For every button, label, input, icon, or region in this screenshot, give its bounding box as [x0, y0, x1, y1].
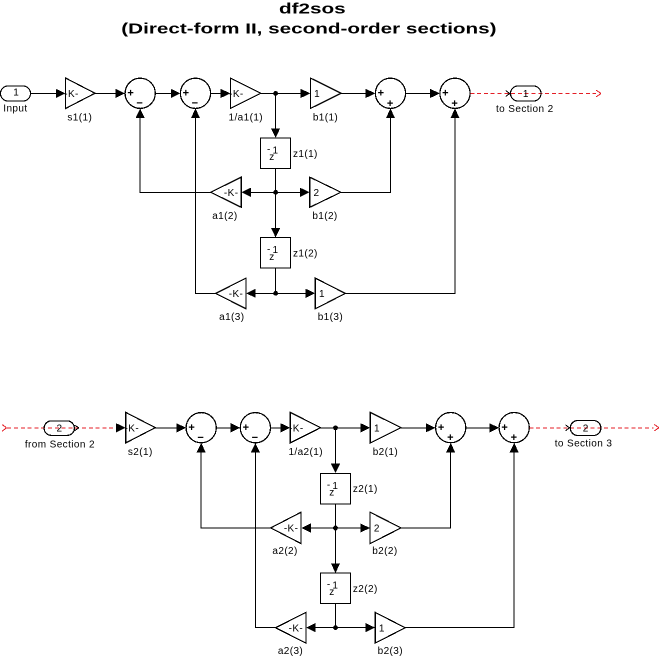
svg-text:+: +: [188, 422, 194, 434]
svg-text:z1(2): z1(2): [293, 249, 318, 260]
wire z2(1) to row2b junction: [335, 504, 337, 528]
sum Sum3b: [436, 413, 466, 445]
wire row2 junction to b1(2): [276, 188, 310, 197]
svg-text:+: +: [127, 88, 133, 100]
wire Sum1 to Sum2: [155, 89, 180, 98]
svg-text:1: 1: [374, 423, 380, 434]
output port to Section 3 (2): [555, 421, 613, 450]
wire Sum3 to Sum4: [406, 89, 440, 98]
sum Sum1: [125, 78, 155, 109]
svg-text:+: +: [442, 88, 448, 100]
svg-text:−: −: [136, 98, 142, 110]
wire Sum2b to 1/a2(1): [271, 423, 291, 432]
svg-text:Input: Input: [3, 104, 27, 115]
wire s1(1) to Sum1: [95, 89, 125, 98]
svg-text:+: +: [378, 88, 384, 100]
wire feedback a2(3) to Sum2b: [251, 443, 276, 628]
svg-text:+: +: [183, 88, 189, 100]
wire b2(1) to Sum3b: [401, 423, 435, 432]
svg-text:a2(3): a2(3): [278, 646, 303, 657]
svg-text:b1(3): b1(3): [318, 312, 343, 323]
wire feedforward b1(2) to Sum3: [341, 109, 395, 193]
svg-text:2: 2: [314, 188, 320, 199]
sum Sum2b: [240, 413, 270, 444]
wire row2b junction to a2(2): [301, 523, 335, 532]
delay z1(1): [261, 138, 318, 168]
delay z2(1): [320, 473, 377, 503]
wire dashed from left edge to s2(1): [7, 427, 116, 429]
svg-text:1/a1(1): 1/a1(1): [229, 112, 264, 123]
wire junction down to z2(1): [331, 428, 340, 473]
wire row3b junction to b2(3): [336, 623, 376, 632]
junction node on row1b: [333, 425, 338, 430]
svg-text:to Section 3: to Section 3: [555, 439, 613, 450]
wire row2 junction to a1(2): [241, 188, 275, 197]
wire feedback a2(2) to Sum1b: [197, 443, 271, 528]
svg-text:−: −: [197, 432, 203, 444]
svg-text:b2(1): b2(1): [373, 447, 398, 458]
input port from Section 2 (2): [25, 421, 95, 450]
svg-text:df2sos: df2sos: [279, 0, 346, 17]
output port to Section 2 (1): [496, 86, 554, 115]
svg-text:b2(2): b2(2): [372, 546, 397, 557]
svg-text:2: 2: [57, 423, 63, 434]
gain a1(3): [216, 278, 246, 323]
svg-text:+: +: [447, 432, 453, 444]
gain s2(1): [125, 412, 156, 457]
sum Sum3: [375, 78, 405, 110]
svg-text:1: 1: [273, 146, 279, 157]
wire row3 junction to b1(3): [276, 289, 316, 298]
svg-text:-K-: -K-: [229, 89, 244, 100]
wire row2b junction down to z2(2): [331, 528, 340, 573]
svg-text:1: 1: [13, 88, 19, 99]
svg-text:a1(2): a1(2): [212, 211, 237, 222]
wire feedback a1(3) to Sum2: [191, 109, 216, 294]
arrowhead into s2(1): [116, 423, 126, 432]
svg-text:-: -: [327, 480, 330, 491]
svg-text:b2(3): b2(3): [378, 646, 403, 657]
wire row2b junction to b2(2): [336, 523, 370, 532]
sum Sum1b: [186, 413, 216, 444]
wire feedback a1(2) to Sum1: [136, 109, 211, 193]
wire Input to s1(1): [31, 89, 66, 98]
gain b2(3): [375, 612, 405, 657]
sum Sum4b: [499, 413, 529, 445]
gain b1(3): [315, 278, 345, 323]
title line 2: [121, 20, 496, 37]
svg-text:a2(2): a2(2): [272, 546, 297, 557]
gain b2(2): [370, 512, 401, 557]
svg-text:b1(1): b1(1): [313, 112, 338, 123]
sum Sum4: [440, 78, 470, 110]
svg-text:-K-: -K-: [229, 289, 244, 300]
svg-text:-: -: [267, 145, 270, 156]
red open arrow end of top line: [596, 90, 601, 97]
wire dashed Sum4 to section boundary: [470, 92, 596, 94]
svg-text:+: +: [511, 432, 517, 444]
wire row3 junction to a1(3): [246, 289, 275, 298]
wire s2(1) to Sum1b: [155, 423, 186, 432]
wire row3b junction to a2(3): [306, 623, 335, 632]
wire Sum1b to Sum2b: [216, 423, 240, 432]
crossing mark before outport: [506, 91, 511, 97]
svg-text:s1(1): s1(1): [67, 112, 92, 123]
svg-text:−: −: [252, 432, 258, 444]
junction node on row1: [273, 91, 278, 96]
svg-text:from Section 2: from Section 2: [25, 439, 95, 450]
wire z2(2) to row3b junction: [335, 604, 337, 628]
gain s1(1): [64, 78, 95, 123]
svg-text:(Direct-form II, second-order: (Direct-form II, second-order sections): [121, 20, 496, 37]
junction node on row3b: [333, 625, 338, 630]
wire feedforward b2(2) to Sum3b: [401, 443, 455, 528]
red open arrow end of bottom line: [654, 424, 659, 431]
svg-text:+: +: [451, 98, 457, 110]
svg-text:-K-: -K-: [289, 423, 304, 434]
wire 1/a1(1) to b1(1): [261, 89, 311, 98]
gain 1/a2(1): [288, 412, 323, 457]
wire Sum2 to 1/a1(1): [211, 89, 231, 98]
svg-text:1: 1: [379, 623, 385, 634]
junction node on row3: [273, 291, 278, 296]
wire z1(1) to row2 junction: [275, 168, 277, 192]
svg-text:1: 1: [273, 245, 279, 256]
svg-text:1: 1: [332, 481, 338, 492]
wire dashed Sum4b to section boundary: [529, 427, 653, 429]
svg-text:+: +: [501, 422, 507, 434]
junction node on row2: [273, 190, 278, 195]
title line 1: [279, 0, 346, 17]
svg-text:+: +: [243, 422, 249, 434]
svg-text:1: 1: [314, 89, 320, 100]
red open arrow start of bottom line: [2, 425, 6, 432]
svg-text:b1(2): b1(2): [312, 211, 337, 222]
svg-text:-: -: [327, 580, 330, 591]
svg-text:-K-: -K-: [64, 89, 79, 100]
wire z1(2) to row3 junction: [275, 268, 277, 293]
wire feedforward b1(3) to Sum4: [345, 109, 459, 294]
chevron at from-port output: [75, 425, 79, 431]
svg-text:z1(1): z1(1): [293, 149, 318, 160]
svg-text:s2(1): s2(1): [128, 447, 153, 458]
svg-text:1: 1: [319, 289, 325, 300]
gain b1(2): [310, 177, 341, 222]
crossing mark before outport b: [566, 425, 571, 431]
svg-text:+: +: [387, 98, 393, 110]
input port Input (1): [1, 86, 31, 115]
svg-text:1: 1: [523, 89, 529, 100]
svg-text:z2(2): z2(2): [353, 584, 378, 595]
svg-text:−: −: [192, 98, 198, 110]
svg-text:to Section 2: to Section 2: [496, 104, 554, 115]
svg-text:-K-: -K-: [224, 188, 239, 199]
wire b1(1) to Sum3: [341, 89, 375, 98]
delay z2(2): [320, 573, 377, 603]
wire junction down to z1(1): [271, 93, 280, 137]
gain a2(2): [271, 512, 301, 557]
wire 1/a2(1) to b2(1): [321, 423, 371, 432]
wire feedforward b2(3) to Sum4b: [405, 443, 519, 628]
junction node on row2b: [333, 526, 338, 531]
gain b2(1): [370, 412, 401, 457]
gain 1/a1(1): [229, 78, 264, 123]
svg-text:a1(3): a1(3): [219, 312, 244, 323]
svg-text:-K-: -K-: [125, 423, 140, 434]
wire row2 junction down to z1(2): [271, 192, 280, 237]
svg-text:-: -: [267, 244, 270, 255]
svg-text:2: 2: [583, 423, 589, 434]
sum Sum2: [180, 78, 210, 109]
svg-text:+: +: [438, 422, 444, 434]
svg-text:1: 1: [332, 581, 338, 592]
gain b1(1): [310, 78, 341, 123]
svg-text:1/a2(1): 1/a2(1): [288, 447, 323, 458]
svg-text:2: 2: [374, 524, 380, 535]
delay z1(2): [261, 238, 318, 268]
svg-text:-K-: -K-: [284, 524, 299, 535]
gain a2(3): [276, 612, 306, 657]
wire Sum3b to Sum4b: [466, 423, 499, 432]
svg-text:z2(1): z2(1): [353, 484, 378, 495]
gain a1(2): [211, 177, 241, 222]
svg-text:-K-: -K-: [289, 623, 304, 634]
